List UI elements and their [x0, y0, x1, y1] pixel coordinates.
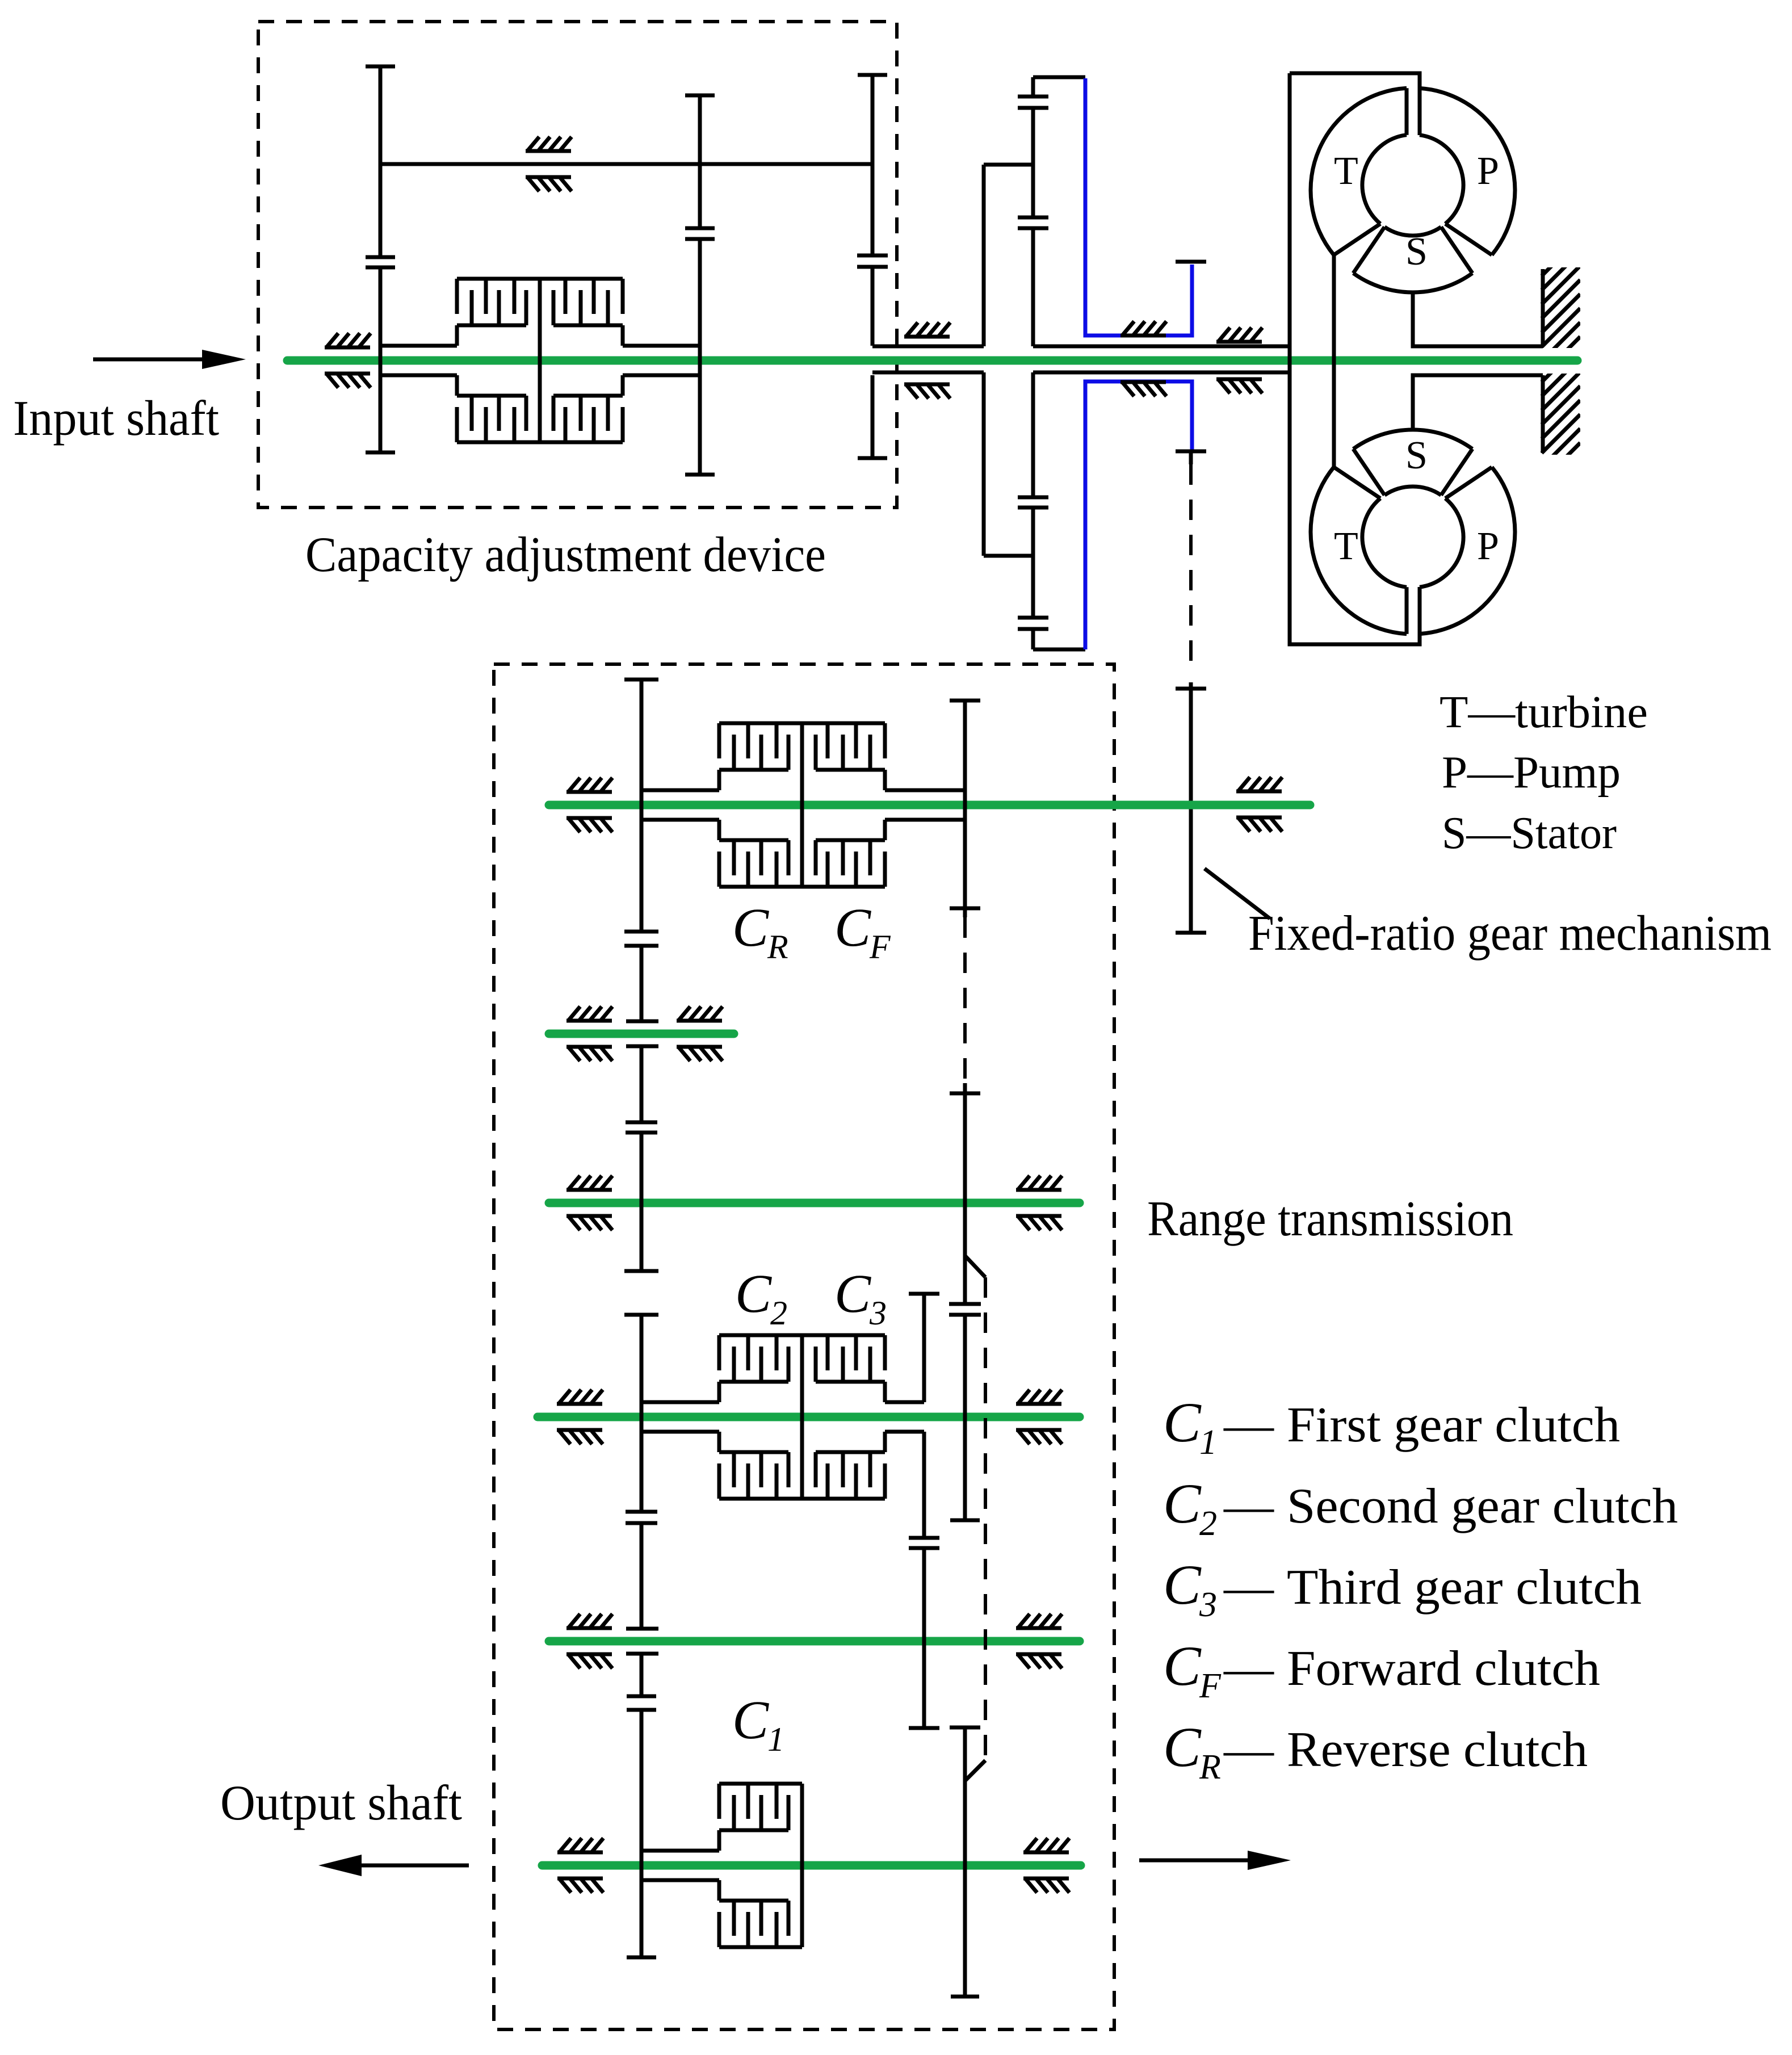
gear B shaft line — [698, 95, 702, 475]
input shaft arrow — [93, 358, 204, 362]
bearing main shaft mid-right — [1216, 328, 1262, 393]
stator link lower — [1413, 375, 1543, 430]
countershaft top line — [380, 162, 872, 166]
gear A spline bars — [366, 257, 395, 267]
svg-text:C: C — [735, 1263, 772, 1324]
svg-text:P: P — [1477, 525, 1499, 568]
blue lower gear cap — [1176, 450, 1206, 454]
branch diagonal lower — [965, 1760, 985, 1781]
clutch CR CF pair — [719, 723, 885, 887]
svg-text:Fixed-ratio gear mechanism: Fixed-ratio gear mechanism — [1248, 906, 1772, 961]
left train spline bars d — [627, 1696, 656, 1710]
right column mid — [963, 1083, 967, 1520]
clutch C2 C3 hub lines — [641, 1402, 924, 1432]
svg-text:—: — — [1223, 1479, 1274, 1534]
svg-text:C: C — [834, 1263, 871, 1324]
clutch C1 hub lines — [641, 1851, 719, 1880]
svg-text:T: T — [1334, 525, 1358, 568]
bypass gear upper corner — [1033, 76, 1085, 79]
converter housing — [1290, 73, 1420, 644]
bearing main shaft at box exit — [904, 322, 950, 399]
gear C bottom cap — [858, 456, 887, 460]
hollow shaft hub lower — [872, 371, 1290, 375]
C3 gear upper — [922, 1294, 926, 1402]
shaft 2 (green) — [549, 801, 1310, 810]
right column cap bottom — [950, 1519, 980, 1523]
fixed-ratio connector dashed — [1189, 464, 1193, 673]
branch diagonal upper — [965, 1256, 985, 1277]
bearing shaft2 left — [566, 778, 612, 832]
svg-text:First gear clutch: First gear clutch — [1287, 1398, 1620, 1453]
bearing shaft3 right — [677, 1006, 723, 1061]
right column mesh bar 1 — [950, 907, 980, 911]
bearing output shaft right — [1023, 1838, 1069, 1893]
svg-text:R: R — [1199, 1748, 1221, 1786]
left train cap 4 — [627, 1956, 656, 1960]
range transmission box — [494, 664, 1114, 2029]
left train segment B — [640, 1315, 644, 1957]
svg-text:Input shaft: Input shaft — [13, 391, 219, 446]
svg-text:Third gear clutch: Third gear clutch — [1287, 1560, 1642, 1615]
clutch CR CF hub lines — [641, 790, 965, 820]
gear A shaft line — [379, 66, 383, 452]
svg-text:C: C — [1163, 1634, 1202, 1697]
shaft 5 (green) — [538, 1413, 1080, 1421]
svg-text:C: C — [1163, 1472, 1202, 1535]
svg-text:F: F — [1199, 1667, 1222, 1705]
fixed-ratio gear line — [1189, 682, 1193, 933]
svg-text:S—Stator: S—Stator — [1442, 808, 1617, 858]
branch dashed — [984, 1277, 987, 1760]
bearing shaft5 left — [557, 1390, 603, 1444]
left train mesh bars shaft3 — [626, 1021, 658, 1046]
svg-text:Forward clutch: Forward clutch — [1287, 1641, 1600, 1696]
svg-text:P: P — [1477, 149, 1499, 193]
bearing shaft4 right — [1016, 1176, 1062, 1230]
left train spline bars a — [624, 932, 658, 946]
fixed-ratio gear cap top — [1176, 687, 1206, 691]
gear C spline bars — [857, 255, 888, 267]
bearing shaft5 right — [1016, 1390, 1062, 1444]
bypass gear upper vertical — [984, 77, 1033, 346]
shaft 6 (green) — [549, 1637, 1080, 1646]
svg-text:Capacity adjustment device: Capacity adjustment device — [305, 527, 826, 582]
svg-text:C: C — [834, 897, 871, 958]
gear B bottom cap — [685, 473, 715, 477]
bearing main shaft left — [325, 333, 371, 388]
output shaft (green) — [542, 1861, 1081, 1870]
bearing shaft3 left — [566, 1006, 612, 1061]
fixed-ratio connector stub — [1189, 451, 1193, 464]
svg-text:T—turbine: T—turbine — [1440, 687, 1648, 737]
left train cap 2 — [624, 1269, 658, 1273]
clutch C1 — [719, 1784, 802, 1947]
left train cap 3 — [624, 1313, 658, 1317]
C3 gear spline bars — [909, 1538, 939, 1548]
left train spline bars b — [626, 1122, 657, 1133]
svg-text:Second gear clutch: Second gear clutch — [1287, 1479, 1678, 1534]
svg-text:F: F — [869, 928, 891, 966]
bypass gear lower corner — [1033, 648, 1085, 652]
svg-text:2: 2 — [770, 1294, 787, 1332]
svg-text:S: S — [1405, 434, 1428, 477]
bearing shaft4 left — [566, 1176, 612, 1230]
turbine link line — [1332, 255, 1336, 467]
svg-text:Range transmission: Range transmission — [1147, 1192, 1513, 1247]
stator link upper — [1413, 292, 1543, 346]
blue link lower — [1085, 381, 1192, 649]
left train spline bars c — [626, 1512, 657, 1523]
right column cap top — [950, 699, 980, 703]
hollow shaft hub upper — [872, 345, 1290, 349]
capacity adjustment device box — [258, 22, 897, 508]
svg-text:2: 2 — [1199, 1504, 1217, 1543]
output gear column — [963, 1727, 967, 1997]
gear B top cap — [685, 94, 715, 98]
blue upper gear cap — [1176, 260, 1206, 264]
input shaft (green) — [287, 357, 1577, 365]
bearing main shaft mid-left — [1120, 321, 1166, 396]
svg-text:C: C — [1163, 1553, 1202, 1616]
right column mesh bar 2 — [950, 1092, 980, 1096]
gear C top cap — [858, 73, 887, 77]
svg-text:3: 3 — [1199, 1586, 1217, 1624]
svg-text:—: — — [1223, 1398, 1274, 1453]
blue link upper — [1085, 78, 1192, 335]
gear A top cap — [366, 65, 395, 69]
C3 gear cap bottom — [909, 1726, 939, 1730]
gear B spline bars — [685, 228, 715, 239]
svg-text:3: 3 — [869, 1294, 887, 1332]
right column dashed — [963, 917, 967, 1080]
capacity clutch hub lines — [380, 346, 700, 375]
svg-text:1: 1 — [1199, 1423, 1217, 1462]
bearing shaft2 right — [1236, 777, 1282, 832]
right column spline bars — [949, 1304, 981, 1315]
bearing output shaft left — [557, 1838, 603, 1893]
left train segment A — [640, 680, 644, 1271]
right column upper — [963, 701, 967, 917]
svg-text:Output shaft: Output shaft — [220, 1776, 462, 1831]
output gear cap top — [950, 1726, 980, 1730]
bearing shaft6 left — [566, 1614, 612, 1668]
C3 gear lower — [922, 1432, 926, 1728]
C3 gear cap top — [909, 1292, 939, 1296]
bearing countershaft — [526, 137, 572, 191]
svg-text:—: — — [1223, 1722, 1274, 1777]
shaft 3 (green) — [549, 1030, 734, 1038]
torque converter lower torus — [1311, 430, 1515, 634]
bypass gear upper spline bars — [1018, 97, 1048, 108]
shaft 4 (green) — [549, 1199, 1080, 1207]
svg-text:—: — — [1223, 1560, 1274, 1615]
output arrow right — [1139, 1859, 1248, 1863]
bearing shaft6 right — [1016, 1614, 1062, 1668]
svg-text:Reverse clutch: Reverse clutch — [1287, 1722, 1588, 1777]
svg-text:C: C — [732, 1689, 769, 1750]
clutch C2 C3 pair — [719, 1335, 885, 1499]
svg-text:C: C — [732, 897, 769, 958]
svg-text:T: T — [1334, 149, 1358, 193]
svg-text:S: S — [1405, 230, 1428, 274]
fixed-ratio leader line — [1205, 869, 1270, 919]
svg-text:P—Pump: P—Pump — [1442, 748, 1621, 798]
fixed-ratio gear cap bottom — [1176, 931, 1206, 935]
gear A bottom cap — [366, 451, 395, 455]
bypass gear lower spline bars — [1018, 497, 1048, 508]
svg-text:C: C — [1163, 1391, 1202, 1454]
svg-text:R: R — [767, 928, 788, 966]
bypass gear lower vertical — [984, 372, 1033, 649]
svg-text:1: 1 — [767, 1721, 784, 1758]
torque converter upper torus — [1311, 88, 1515, 292]
left train cap 1 — [624, 678, 658, 682]
output shaft arrow — [362, 1864, 469, 1868]
svg-text:—: — — [1223, 1641, 1274, 1696]
svg-text:C: C — [1163, 1716, 1202, 1779]
output gear cap bottom — [951, 1995, 979, 1999]
left train mesh bars shaft6 — [626, 1629, 658, 1654]
gear C shaft line — [871, 75, 875, 458]
capacity clutch pair — [457, 279, 623, 442]
